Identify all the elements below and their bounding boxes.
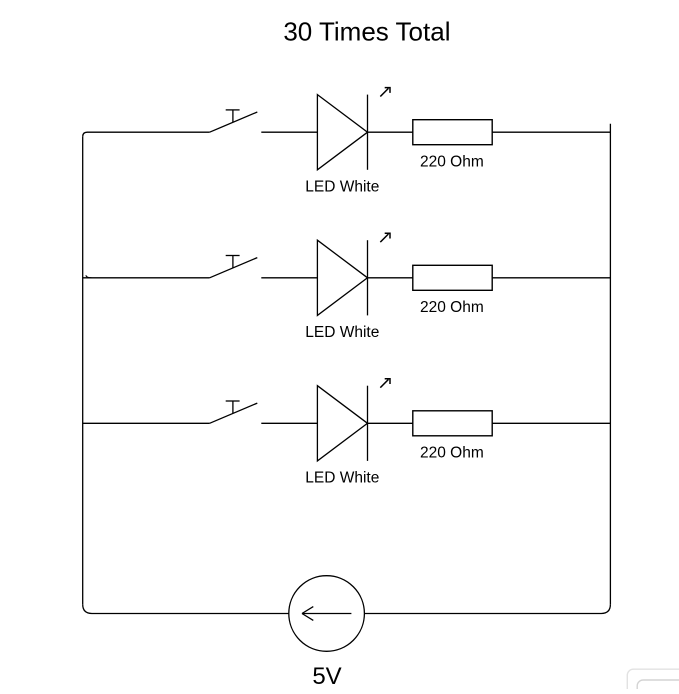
pushbutton switch SW3 xyxy=(210,401,258,423)
wire left rail (vertical bus) xyxy=(82,137,84,605)
svg-text:30 Times Total: 30 Times Total xyxy=(283,17,450,47)
wire switch SW3 to LED D3 anode xyxy=(261,422,317,424)
svg-text:220 Ohm: 220 Ohm xyxy=(420,445,484,462)
wire bottom right (source V1 to right rail corner) xyxy=(364,604,610,613)
value label "220 Ohm" for R2 xyxy=(420,299,484,316)
wire row1 left (left rail top corner to switch SW1) xyxy=(83,132,210,137)
svg-text:LED White: LED White xyxy=(305,178,379,195)
power source V1 (5V supply, circle with arrow) xyxy=(289,576,365,652)
svg-text:220 Ohm: 220 Ohm xyxy=(420,299,484,316)
value label "LED White" for D1 xyxy=(305,178,379,195)
wire resistor R3 to right rail xyxy=(492,422,610,424)
resistor R2 xyxy=(413,265,492,290)
wire resistor R2 to right rail xyxy=(492,277,610,279)
wire switch SW2 to LED D2 anode xyxy=(261,277,317,279)
wire switch SW1 to LED D1 anode xyxy=(261,131,317,133)
svg-text:220 Ohm: 220 Ohm xyxy=(420,154,484,171)
title text "30 Times Total" xyxy=(283,17,450,47)
LED D2 (white LED symbol) xyxy=(317,233,390,315)
svg-text:5V: 5V xyxy=(312,663,341,689)
wire right rail (vertical bus) xyxy=(609,124,611,605)
ui panel corner (outer rounded rectangle, bottom-right) xyxy=(627,669,679,694)
value label "220 Ohm" for R1 xyxy=(420,154,484,171)
value label "LED White" for D2 xyxy=(305,324,379,341)
resistor R3 xyxy=(413,411,492,436)
wire bottom left (rail corner to source V1) xyxy=(83,604,289,613)
svg-text:LED White: LED White xyxy=(305,469,379,486)
LED D3 (white LED symbol) xyxy=(317,379,390,461)
wire row3 left (left rail to switch SW3) xyxy=(83,422,210,424)
LED D1 (white LED symbol) xyxy=(317,88,390,170)
value label "5V" for source V1 xyxy=(312,663,341,690)
wire row2 left (left rail to switch SW2) xyxy=(83,275,210,278)
ui panel corner (inner rounded rectangle, bottom-right) xyxy=(637,680,679,694)
value label "LED White" for D3 xyxy=(305,469,379,486)
pushbutton switch SW1 xyxy=(210,110,258,132)
wire LED D2 cathode to resistor R2 xyxy=(368,277,413,279)
value label "220 Ohm" for R3 xyxy=(420,445,484,462)
resistor R1 xyxy=(413,120,492,145)
svg-text:LED White: LED White xyxy=(305,324,379,341)
wire LED D3 cathode to resistor R3 xyxy=(368,422,413,424)
pushbutton switch SW2 xyxy=(210,256,258,278)
wire resistor R1 to right rail xyxy=(492,131,610,133)
wire LED D1 cathode to resistor R1 xyxy=(368,131,413,133)
